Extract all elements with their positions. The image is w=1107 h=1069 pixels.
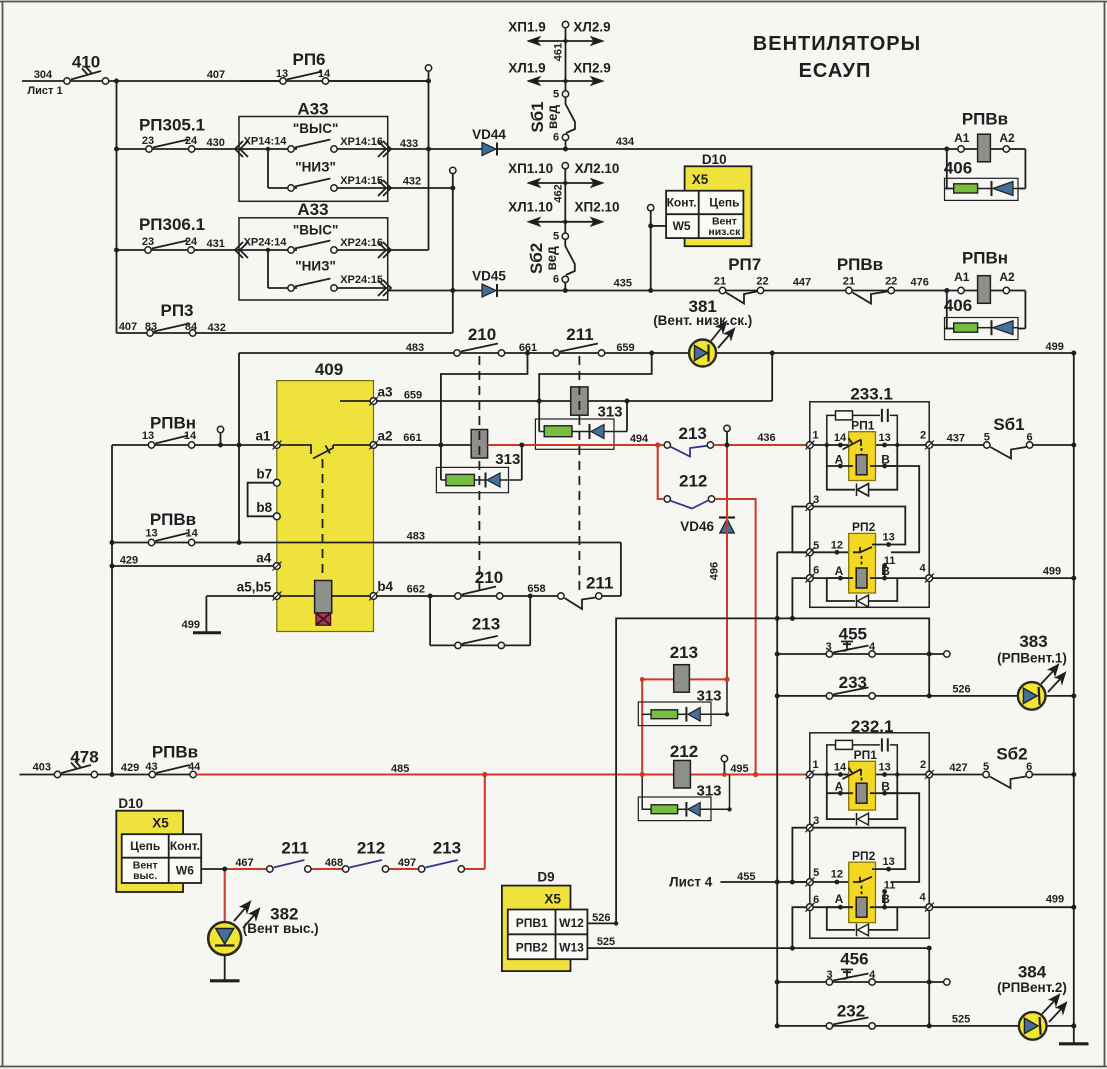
arrow ХП1.10 left <box>529 180 565 187</box>
connector D9 table РПВ1/РПВ2 <box>508 910 588 960</box>
svg-text:3: 3 <box>813 494 819 506</box>
snubber 406 box for РПВн <box>945 318 1019 340</box>
svg-text:3: 3 <box>827 969 833 981</box>
contact 210 <box>454 344 505 357</box>
pushbutton Sb2 5-6 <box>983 771 1033 788</box>
svg-text:XP24:15: XP24:15 <box>340 274 383 286</box>
svg-text:B: B <box>881 892 890 906</box>
svg-text:433: 433 <box>400 138 418 150</box>
connector chevrons XP14 XP24 on A33 edges <box>235 141 391 296</box>
svg-text:вед: вед <box>545 104 560 129</box>
contact 233 <box>826 687 875 699</box>
svg-text:ХЛ1.10: ХЛ1.10 <box>508 200 553 215</box>
pin 3 row inner link to РП2 13 <box>813 507 905 545</box>
contact 211 bottom (navy) <box>267 860 311 872</box>
contact 456 with T symbol <box>826 970 875 986</box>
pin 1 of 232.1 <box>806 770 815 779</box>
svg-text:VD44: VD44 <box>472 127 506 142</box>
connector D10 lower table Цепь/Конт <box>122 834 202 883</box>
wire jog L2 from 659 junction down-left to coil B branch <box>539 353 652 432</box>
pin a4 of 409 <box>273 562 282 571</box>
A33 box upper <box>239 117 388 202</box>
svg-text:233.1: 233.1 <box>850 385 893 404</box>
svg-text:410: 410 <box>72 53 100 72</box>
relay coil РПВв A1-A2 <box>958 134 1010 162</box>
contact РП3 83-84 <box>147 324 196 337</box>
svg-text:6: 6 <box>813 894 819 906</box>
pin 5 row to РП2 contact of 232.1 <box>813 881 850 883</box>
pin 3 of 233.1 <box>806 502 815 511</box>
svg-text:ХП2.9: ХП2.9 <box>573 61 610 76</box>
pins 3-5 outer jumper of 232.1 <box>792 828 806 882</box>
svg-text:A1: A1 <box>954 270 970 284</box>
svg-text:499: 499 <box>1043 566 1061 578</box>
svg-text:A2: A2 <box>999 270 1015 284</box>
pushbutton Sb2 вед 5-6 <box>562 233 575 282</box>
svg-text:232: 232 <box>837 1002 865 1021</box>
svg-text:432: 432 <box>208 322 226 334</box>
pin 6 row A-B with РП2 coil <box>813 568 926 588</box>
svg-text:661: 661 <box>403 432 421 444</box>
svg-text:24: 24 <box>185 236 198 248</box>
svg-text:662: 662 <box>407 584 425 596</box>
svg-text:455: 455 <box>737 871 755 883</box>
svg-text:5: 5 <box>984 432 990 444</box>
svg-text:407: 407 <box>119 321 137 333</box>
svg-text:497: 497 <box>398 857 416 869</box>
wire 499 bus vertical right side <box>1073 353 1075 1043</box>
terminal circle top Sb1 column <box>562 21 568 27</box>
contact РП306.1 23-24 <box>145 241 194 254</box>
svg-text:Цепь: Цепь <box>709 196 739 210</box>
wire red 485 495 row from РПВв 44 to block 232.1 pin 1 <box>196 774 806 776</box>
arrow ХП2.9 right <box>566 78 603 85</box>
pin a3 of 409 <box>369 397 378 406</box>
svg-text:D9: D9 <box>537 870 554 885</box>
A33 box lower <box>239 218 388 300</box>
pin a5,b5 of 409 <box>273 592 282 601</box>
svg-text:467: 467 <box>235 857 253 869</box>
svg-text:А33: А33 <box>297 200 328 219</box>
svg-text:409: 409 <box>315 360 343 379</box>
wire 499 row from pin 4 of 232.1 to bus <box>932 906 1073 908</box>
РП1 contact blade 14-13 of 232.1 <box>843 768 862 784</box>
pin 6 row A-B with РП2 coil of 232.1 <box>813 897 926 917</box>
arrow ХЛ2.9 right <box>566 38 603 45</box>
svg-text:213: 213 <box>433 839 461 858</box>
diode VD44 <box>482 143 497 156</box>
svg-text:406: 406 <box>944 296 972 315</box>
svg-text:РП6: РП6 <box>292 50 325 69</box>
svg-text:5: 5 <box>553 89 559 101</box>
svg-text:384: 384 <box>1018 963 1047 982</box>
svg-text:23: 23 <box>142 135 154 147</box>
svg-text:436: 436 <box>757 432 775 444</box>
svg-text:461: 461 <box>553 43 565 61</box>
contact A33 ВЫС upper XP14 <box>288 140 337 153</box>
wire W6 stub <box>201 868 225 870</box>
wire: vertical from 410 output down to РП3 row <box>116 81 118 333</box>
wire 455 bus vertical <box>776 552 778 1026</box>
svg-text:a3: a3 <box>377 385 393 400</box>
svg-text:(РПВент.1): (РПВент.1) <box>997 651 1067 666</box>
contact РП6 13-14 <box>240 72 429 85</box>
svg-text:РП7: РП7 <box>728 255 761 274</box>
connector D10 upper table Конт/Цепь <box>666 191 743 238</box>
crossed box inside 409 (maroon) <box>316 613 331 625</box>
pins 3-5 outer jumper <box>792 507 806 553</box>
wire 456 contact row <box>777 981 943 983</box>
pin b4 of 409 <box>369 592 378 601</box>
svg-text:6: 6 <box>553 132 559 144</box>
svg-text:ХЛ2.10: ХЛ2.10 <box>575 161 620 176</box>
contact 212 middle (navy) <box>664 496 715 509</box>
svg-text:525: 525 <box>597 936 615 948</box>
pin 4 of 233.1 <box>925 574 934 583</box>
arrow ХЛ2.10 right <box>565 180 602 187</box>
coil on 661 wire <box>471 430 487 459</box>
svg-text:84: 84 <box>185 321 198 333</box>
wire 232 contact row to LED 384 to bus <box>777 1025 1074 1027</box>
svg-text:РП2: РП2 <box>852 520 876 534</box>
arrow ХЛ1.10 left <box>529 218 565 225</box>
pin 6 of 232.1 <box>806 903 815 912</box>
ground symbol under LED 382 <box>210 979 240 982</box>
svg-text:456: 456 <box>840 950 868 969</box>
connector D9 body <box>502 886 571 972</box>
svg-text:407: 407 <box>207 69 225 81</box>
svg-text:РПВв: РПВв <box>150 510 196 529</box>
svg-text:ХП1.9: ХП1.9 <box>508 20 545 35</box>
svg-text:X5: X5 <box>544 891 561 906</box>
wires inside A33 lower: ВЫС and НИЗ branches <box>239 250 388 288</box>
wire: РП305.1 row 23-24 to A33 <box>117 148 240 150</box>
labels bottom left section <box>33 743 616 955</box>
svg-text:43: 43 <box>145 761 157 773</box>
svg-text:24: 24 <box>185 135 198 147</box>
svg-text:210: 210 <box>475 568 503 587</box>
arrow ХП2.10 right <box>565 218 602 225</box>
pin 5 of 233.1 <box>806 548 815 557</box>
diode VD45 <box>482 284 497 297</box>
svg-text:b8: b8 <box>256 500 272 515</box>
wire a5,b5 to ground 499 <box>206 596 273 632</box>
svg-text:212: 212 <box>357 839 385 858</box>
svg-text:213: 213 <box>679 424 707 443</box>
terminal circle on РП6 vertical <box>425 65 431 71</box>
svg-text:ХП1.10: ХП1.10 <box>508 161 553 176</box>
svg-text:483: 483 <box>407 531 425 543</box>
snubber 313 box for coil 212 bottom <box>638 775 729 821</box>
svg-text:499: 499 <box>1046 894 1064 906</box>
snubber 313 box on 659 coil <box>535 401 627 449</box>
svg-text:ХЛ2.9: ХЛ2.9 <box>573 20 610 35</box>
svg-text:437: 437 <box>947 433 965 445</box>
svg-text:W13: W13 <box>559 941 584 955</box>
pin 6 row extension to jumper down to 525 of 232.1 <box>792 907 806 948</box>
pin 3 row inner link to РП2 13 of 232.1 <box>813 828 905 869</box>
wire: 433 row A33 out to VD44 to 434 to РПВв coil <box>388 149 1026 189</box>
svg-text:XP24:14: XP24:14 <box>244 237 288 249</box>
svg-text:304: 304 <box>34 69 53 81</box>
ground symbol at bottom of 499 bus <box>1059 1042 1089 1045</box>
node ХП1.9/ХЛ2.9 terminal column Sb1 <box>565 28 567 149</box>
svg-text:ХП2.10: ХП2.10 <box>575 200 620 215</box>
terminal circle on РПВн row <box>217 426 223 432</box>
РП2 diode loop <box>827 578 898 607</box>
wire Лист 4 455 row to pin 5 of 232.1 <box>720 881 806 883</box>
svg-text:ЕСАУП: ЕСАУП <box>799 60 872 82</box>
РП2 11 stub of 232.1 <box>884 892 886 908</box>
labels РПВв РПВн relays right top <box>944 110 1064 354</box>
svg-text:14: 14 <box>185 528 198 540</box>
svg-text:434: 434 <box>616 136 635 148</box>
svg-text:447: 447 <box>793 276 811 288</box>
connector D10 upper body <box>685 166 752 246</box>
svg-text:W6: W6 <box>176 863 194 877</box>
wire: РП306.1 row 23-24 to A33 lower <box>117 249 240 251</box>
relay РП1 of 233.1 yellow body <box>849 432 876 481</box>
svg-text:212: 212 <box>670 742 698 761</box>
svg-text:431: 431 <box>207 238 225 250</box>
svg-text:A2: A2 <box>999 131 1015 145</box>
pin 6 row extension to jumper down to 526 <box>792 578 806 618</box>
wire 429 row to pin a4 <box>112 565 274 567</box>
wire 427 row from pin 2 to Sb2 to bus <box>932 774 1073 776</box>
svg-text:a5,b5: a5,b5 <box>237 580 272 595</box>
svg-text:a1: a1 <box>255 429 271 444</box>
svg-text:VD45: VD45 <box>472 269 506 284</box>
LED 384 РПВент.2 <box>1019 995 1066 1040</box>
svg-text:435: 435 <box>614 278 632 290</box>
wire left bus from РПВн row down to 478 row <box>111 445 113 775</box>
wire red 467 row with contacts 211 212 213 <box>225 868 485 870</box>
svg-text:A: A <box>835 780 844 794</box>
svg-text:211: 211 <box>566 325 593 344</box>
svg-text:a2: a2 <box>377 429 392 444</box>
wire red vertical 484.8 down to 467 row <box>484 775 486 870</box>
terminal circle at end of 456 row <box>944 979 950 985</box>
svg-text:ХЛ1.9: ХЛ1.9 <box>508 61 545 76</box>
svg-text:"ВЫС": "ВЫС" <box>293 121 339 136</box>
labels middle section <box>120 325 776 800</box>
wire РПВв row 13-14 and 483 row across 409 to corner down to 211 lower <box>112 543 621 597</box>
svg-text:4: 4 <box>919 563 926 575</box>
svg-text:D10: D10 <box>702 152 727 167</box>
coil on 659 wire <box>571 387 588 415</box>
svg-text:6: 6 <box>813 565 819 577</box>
svg-text:4: 4 <box>869 969 876 981</box>
svg-text:6: 6 <box>1026 761 1032 773</box>
svg-text:232.1: 232.1 <box>851 717 894 736</box>
junction dots red <box>482 442 758 777</box>
svg-text:403: 403 <box>33 762 51 774</box>
svg-text:A: A <box>835 892 844 906</box>
svg-text:Лист 4: Лист 4 <box>669 875 713 890</box>
svg-text:5: 5 <box>983 761 989 773</box>
svg-text:526: 526 <box>952 684 970 696</box>
snubber 313 box on 661 coil <box>436 445 521 493</box>
svg-text:13: 13 <box>145 528 157 540</box>
pin 2 of 232.1 <box>925 770 934 779</box>
svg-text:485: 485 <box>391 763 409 775</box>
contact РП7 21-22 <box>719 287 763 303</box>
svg-text:23: 23 <box>142 236 154 248</box>
relay РП2 of 233.1 yellow body <box>849 533 876 593</box>
svg-text:6: 6 <box>1027 432 1033 444</box>
relay coil РПВн A1-A2 <box>958 276 1010 304</box>
wire 525 row from W13 across to right leg <box>587 948 929 1026</box>
svg-text:РПВв: РПВв <box>962 110 1008 129</box>
svg-text:"НИЗ": "НИЗ" <box>295 160 336 175</box>
wire 499 row from pin 4 to bus <box>932 577 1073 579</box>
pin 4 of 232.1 <box>925 903 934 912</box>
LED 383 РПВент.1 <box>1018 665 1065 710</box>
РП1 diode loop of 232.1 <box>827 793 898 825</box>
svg-text:499: 499 <box>1046 341 1064 353</box>
contact РПВн 13-14 <box>148 436 195 449</box>
svg-text:РП306.1: РП306.1 <box>139 215 205 234</box>
contact РПВв 21-22 <box>846 287 895 303</box>
svg-text:РПВн: РПВн <box>150 414 196 433</box>
contact РПВв 43-44 <box>149 765 196 778</box>
arrow ХЛ1.9 left <box>529 78 566 85</box>
terminal circle at end of 455 row <box>944 651 950 657</box>
svg-text:13: 13 <box>878 432 890 444</box>
svg-text:495: 495 <box>730 763 748 775</box>
svg-text:213: 213 <box>472 615 500 634</box>
contact РП305.1 23-24 <box>146 140 195 153</box>
wire 233 contact row to LED 383 to bus <box>777 695 1074 697</box>
РП1 A-B row with coil <box>827 445 898 475</box>
wire red stem to LED 382 <box>224 869 226 922</box>
contact A33 НИЗ upper <box>288 179 337 192</box>
svg-text:212: 212 <box>679 472 707 491</box>
contact 455 with T symbol <box>826 642 875 658</box>
svg-text:468: 468 <box>325 857 343 869</box>
wire 483 upper row with 210 211 contacts to LED 381 and to 499 bus <box>239 352 1074 354</box>
switch inside 409 between a1 a2 <box>280 445 370 459</box>
switch 410 <box>64 67 109 84</box>
svg-text:РПВв: РПВв <box>152 743 198 762</box>
svg-text:494: 494 <box>630 433 649 445</box>
svg-text:659: 659 <box>616 342 634 354</box>
svg-text:2: 2 <box>920 430 926 442</box>
svg-text:3: 3 <box>826 641 832 653</box>
svg-text:659: 659 <box>404 390 422 402</box>
svg-text:"ВЫС": "ВЫС" <box>293 223 339 238</box>
contact A33 ВЫС lower XP24 <box>288 241 337 254</box>
block 232.1 pin row 1-2 wire <box>813 774 926 776</box>
block 233.1 outline <box>810 402 929 608</box>
LED 381 Вент.низк.ск. <box>689 322 734 367</box>
wire W5 stub and vertical to 435 row with terminal <box>651 211 666 291</box>
РП2 diode loop of 232.1 <box>827 907 898 936</box>
svg-text:VD46: VD46 <box>680 519 714 534</box>
svg-text:РП1: РП1 <box>854 748 878 762</box>
wire red from 212 contact down to 495 row <box>715 499 756 775</box>
contact 213 middle (navy) <box>664 442 714 457</box>
svg-text:499: 499 <box>182 619 200 631</box>
ground symbol at 409 <box>193 631 221 634</box>
svg-text:ВЕНТИЛЯТОРЫ: ВЕНТИЛЯТОРЫ <box>753 33 921 55</box>
svg-text:(Вент выс.): (Вент выс.) <box>243 921 319 936</box>
РП2 contact blade 12-13 of 232.1 <box>853 869 889 896</box>
connector D10 lower body <box>116 811 183 892</box>
svg-text:Конт.: Конт. <box>170 839 200 853</box>
svg-text:A1: A1 <box>954 131 970 145</box>
wire LED 382 to ground <box>224 955 226 980</box>
svg-text:B: B <box>881 564 890 578</box>
svg-text:211: 211 <box>281 839 308 858</box>
terminal circle on 432 vertical <box>450 167 456 173</box>
svg-text:383: 383 <box>1019 632 1047 651</box>
svg-text:83: 83 <box>145 321 157 333</box>
svg-text:D10: D10 <box>118 796 143 811</box>
svg-text:вед: вед <box>544 246 559 271</box>
svg-text:658: 658 <box>527 583 545 595</box>
svg-text:выс.: выс. <box>133 870 157 882</box>
svg-text:W12: W12 <box>559 916 584 930</box>
svg-text:РПВ2: РПВ2 <box>516 941 548 955</box>
relay РП2 of 232.1 yellow body <box>849 862 876 922</box>
svg-text:РПВв: РПВв <box>837 255 883 274</box>
РП1 A-B row with coil of 232.1 <box>827 775 898 804</box>
svg-text:a4: a4 <box>256 551 272 566</box>
svg-text:13: 13 <box>878 762 890 774</box>
contact 232 <box>826 1017 875 1029</box>
relay РП1 of 232.1 yellow body <box>849 761 876 810</box>
labels D10 upper and РП7 row <box>653 152 929 328</box>
RC snubber inside 232.1 top <box>827 738 898 774</box>
wires inside A33 upper: ВЫС and НИЗ branches <box>239 149 388 188</box>
pin 5 row to РП2 contact <box>777 551 850 553</box>
РП1 diode loop <box>827 466 898 496</box>
snubber 313 box for coil 213 bottom <box>638 679 727 725</box>
svg-text:XP14:15: XP14:15 <box>340 175 383 187</box>
svg-text:(Вент. низк.ск.): (Вент. низк.ск.) <box>653 313 752 328</box>
element inside 409 (gray) <box>315 581 332 614</box>
pin a2 of 409 <box>369 441 378 450</box>
svg-text:12: 12 <box>831 869 843 881</box>
РП2 11 stub <box>884 566 886 579</box>
svg-text:3: 3 <box>813 815 819 827</box>
mechanical dashed link from 210 contact through coil down to 210 lower <box>478 356 480 592</box>
wire 403 478 429 row bottom left <box>19 774 190 776</box>
svg-text:X5: X5 <box>152 816 169 831</box>
svg-text:(РПВент.2): (РПВент.2) <box>997 980 1067 995</box>
mechanical dashed link from 211 contact through coil down to 211 lower <box>578 356 580 592</box>
RC snubber inside 233.1 top <box>827 409 898 445</box>
pin 3 of 232.1 <box>806 823 815 832</box>
labels 232.1 block and Sb2 <box>669 717 1067 1026</box>
svg-text:XP14:14: XP14:14 <box>244 136 288 148</box>
svg-text:526: 526 <box>592 912 610 924</box>
svg-text:A: A <box>835 453 844 467</box>
wire: vertical 432 net with terminal, down to РП3 row right end <box>193 174 453 333</box>
svg-text:Sб1: Sб1 <box>993 415 1024 434</box>
svg-text:W5: W5 <box>673 219 691 233</box>
svg-text:"НИЗ": "НИЗ" <box>295 259 336 274</box>
svg-text:496: 496 <box>709 562 721 580</box>
wire jog L1 from 661 junction down-left to coil A branch <box>441 353 528 480</box>
svg-text:РПВн: РПВн <box>962 248 1008 267</box>
svg-text:313: 313 <box>597 404 622 421</box>
node ХП1.10/ХЛ2.10 terminal column Sb2 <box>564 169 566 291</box>
block 232.1 outline <box>810 733 929 938</box>
wire red branch down to 212 contact <box>658 445 664 499</box>
svg-text:5: 5 <box>813 540 819 552</box>
